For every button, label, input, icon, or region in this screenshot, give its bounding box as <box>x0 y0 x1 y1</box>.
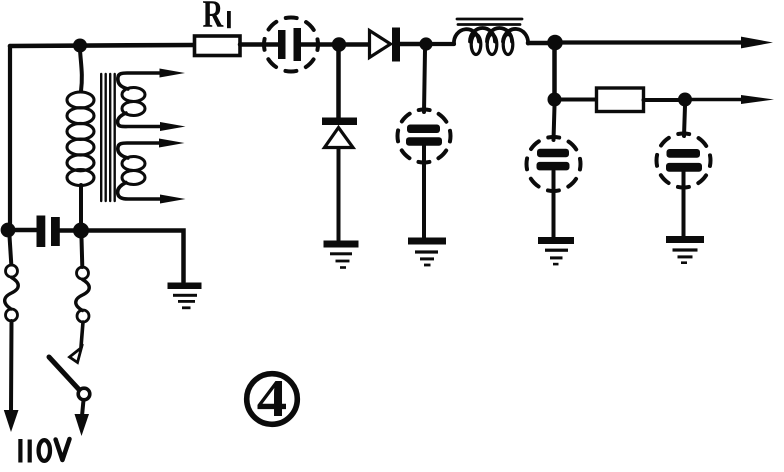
capacitor C4 (electrolytic, dashed circle) <box>527 137 581 191</box>
tap arrow 4 <box>160 195 186 204</box>
wire node B to L1 <box>432 42 454 46</box>
transformer T1 core <box>101 74 115 201</box>
label 110V <box>18 439 69 463</box>
tap arrow 1 <box>160 69 186 78</box>
capacitor C5 (electrolytic, dashed circle) <box>657 134 711 188</box>
wire node G to ground stub <box>89 231 184 283</box>
resistor R1 <box>195 36 241 56</box>
node B <box>419 37 432 50</box>
capacitor C1 (feedthrough, dashed circle) <box>264 18 318 72</box>
wire node B down to C3 <box>424 50 425 112</box>
transformer T1 secondary upper winding <box>118 73 163 127</box>
switch S1 blade <box>49 357 79 389</box>
ground (C4) <box>538 237 574 265</box>
wire fuse to arrow <box>9 321 14 412</box>
wire D2 to ground <box>337 148 341 240</box>
node C <box>547 35 563 51</box>
transformer T1 primary coil <box>67 92 94 186</box>
figure number 4 in circle <box>247 374 298 425</box>
ground (transformer) <box>168 283 202 310</box>
wire node D to R2 <box>561 98 596 102</box>
ground (D2) <box>324 241 359 269</box>
wire pivot to arrow <box>82 400 84 416</box>
wire C1 to node <box>301 42 334 47</box>
label R1 <box>203 1 231 28</box>
fuse F2 (right plug lead) <box>76 238 90 322</box>
node junction top of transformer <box>73 39 87 53</box>
fuse F1 (left plug lead) <box>5 236 19 321</box>
transformer T1 primary bottom lead <box>79 185 83 224</box>
node D <box>548 93 562 107</box>
tap arrow 2 <box>160 122 186 131</box>
ground (C5) <box>666 236 704 264</box>
wire left vertical <box>8 46 12 230</box>
supply arrow left <box>4 410 19 432</box>
capacitor C3 (electrolytic, dashed circle) <box>398 110 451 163</box>
tap arrow 3 <box>159 139 185 148</box>
capacitor C2 <box>37 216 60 248</box>
ground (C3) <box>408 238 446 267</box>
core of L1 <box>457 19 522 25</box>
wire R2 to node E <box>644 98 680 102</box>
resistor R2 <box>597 88 644 112</box>
wire C2 to node G <box>60 228 81 233</box>
wire C3 to ground <box>422 146 426 238</box>
wire top bus left segment <box>10 45 193 46</box>
transformer T1 primary lead from node <box>80 50 82 91</box>
node A <box>332 37 346 51</box>
diode D1 <box>370 28 401 62</box>
inductor L1 <box>454 28 528 55</box>
switch S1 contact wire <box>81 322 83 347</box>
wire C4 to ground <box>552 171 556 238</box>
output arrow 2 <box>741 95 774 104</box>
wire C5 to ground <box>682 168 686 236</box>
wire node C to output arrow 1 <box>562 40 744 44</box>
transformer T1 secondary lower winding <box>118 143 162 199</box>
node G <box>73 223 89 239</box>
node F <box>1 223 16 238</box>
wire node E down to C5 <box>684 106 685 136</box>
wire node A to D1 <box>346 42 369 47</box>
wire node E to output arrow 2 <box>692 98 744 102</box>
supply arrow right <box>75 414 90 436</box>
switch S1 fixed contact triangle <box>70 348 82 363</box>
output arrow 1 <box>741 37 773 49</box>
wire D1 to node B <box>400 42 420 47</box>
wire node A down to D2 <box>336 51 341 118</box>
wire R1 to C1 <box>240 42 278 47</box>
wire node C down to node D <box>552 50 557 93</box>
wire bottom-left bus <box>8 228 36 233</box>
switch S1 pivot <box>78 388 90 400</box>
wire L1 to node C <box>528 41 548 46</box>
diode D2 (shunt) <box>322 118 357 148</box>
wire node D down to C4 <box>554 106 555 140</box>
node E <box>678 93 692 107</box>
